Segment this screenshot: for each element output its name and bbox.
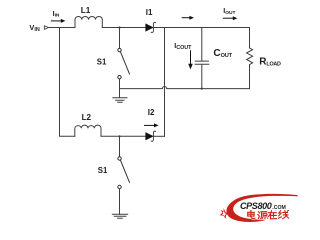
switch S1 upper: top contact [118, 48, 121, 51]
inductor L1 [75, 16, 102, 27]
switch S1 lower: blade [120, 160, 129, 182]
current arrow ICOUT (down) [188, 50, 193, 69]
riser from diode I2 to output rail [164, 28, 166, 137]
svg-text:L2: L2 [82, 113, 92, 122]
resistor RLOAD [247, 28, 253, 89]
node ground rail / cap junction dot [201, 88, 203, 90]
svg-text:VIN: VIN [29, 23, 39, 33]
switch S1 upper: blade [120, 52, 129, 74]
svg-text:ICOUT: ICOUT [174, 41, 192, 51]
current arrow I2 [144, 123, 159, 127]
svg-text:COUT: COUT [213, 48, 232, 59]
logo chinese char xian [279, 211, 289, 219]
svg-text:I2: I2 [148, 108, 155, 117]
wire input bus vertical to L2 [60, 28, 75, 137]
diode I1 (schottky) [146, 24, 153, 31]
svg-text:RLOAD: RLOAD [259, 57, 281, 68]
switch S1 lower: top contact [118, 157, 121, 160]
logo chinese char dian [248, 211, 255, 219]
wire S1 to ground rail [119, 79, 121, 89]
ground symbol lower [112, 214, 127, 218]
wire L1 to diode I1 [102, 27, 145, 29]
svg-text:IIN: IIN [53, 9, 60, 19]
svg-text:S1: S1 [98, 166, 108, 175]
switch S1 lower: bottom contact [118, 185, 121, 188]
switch S1 upper: bottom contact [118, 76, 121, 79]
logo star sparkle [220, 208, 230, 219]
ground symbol upper [113, 89, 127, 103]
inductor L2 [75, 125, 101, 136]
svg-text:L1: L1 [81, 6, 91, 15]
capacitor COUT [195, 28, 209, 89]
wire I2 cathode to riser [153, 135, 164, 137]
switch S1 lower: stem [119, 136, 121, 157]
wire S1 lower to ground [119, 189, 121, 215]
svg-text:S1: S1 [97, 57, 107, 66]
current arrow IOUT [223, 16, 238, 20]
logo chinese char zai [268, 211, 277, 219]
logo chinese char yuan [258, 212, 268, 219]
node VIN input arrowhead [44, 26, 48, 30]
logo swoosh (red crescent) [226, 194, 297, 222]
node phase2 junction dot [118, 135, 120, 137]
wire L2 to diode I2 [101, 135, 146, 137]
diode I2 (schottky) [146, 133, 153, 140]
current arrow after I1 [182, 16, 194, 20]
ground rail with hop over I2 riser [120, 86, 250, 88]
wire I1 cathode to RLOAD top rail [153, 27, 249, 29]
wire VIN to L1 [49, 27, 75, 29]
switch S1 upper: stem [119, 28, 121, 49]
current arrow IIN [51, 19, 66, 23]
node phase1 junction dot [118, 26, 120, 28]
svg-text:IOUT: IOUT [223, 6, 235, 16]
svg-text:CPS800: CPS800 [240, 201, 272, 211]
svg-text:I1: I1 [146, 8, 153, 17]
